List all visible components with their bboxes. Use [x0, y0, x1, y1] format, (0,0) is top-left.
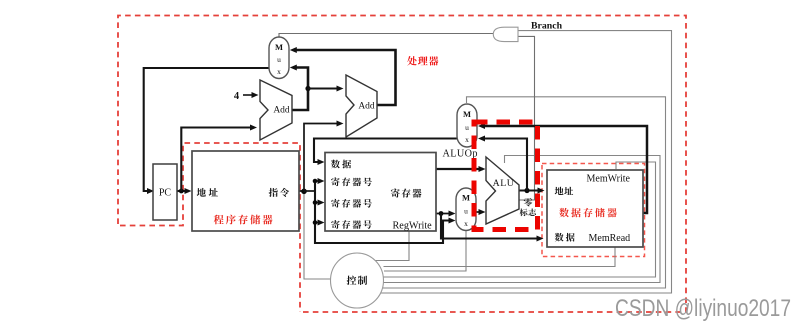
wire mux M2 output to register write data — [314, 139, 457, 166]
register write data label — [331, 160, 351, 169]
svg-text:u: u — [465, 123, 469, 132]
program memory address label — [197, 188, 218, 197]
wire MemWrite control loop (control to data memory) — [384, 162, 656, 277]
wire RegWrite control (control to register file) — [375, 231, 409, 261]
wire register read data 2 to mux M3 and data memory — [436, 211, 544, 242]
wire ALUOp control loop (control to ALU) — [384, 156, 661, 283]
PC register — [153, 164, 177, 220]
program memory box — [192, 151, 299, 231]
register file box — [325, 153, 436, 232]
svg-text:4: 4 — [234, 91, 240, 102]
wire register read data 1 to ALU — [436, 166, 486, 172]
constant 4 label — [234, 91, 240, 102]
program memory instruction label — [269, 188, 289, 197]
wire ALUSrc control (control to mux M3) — [384, 231, 466, 271]
svg-text:Add: Add — [358, 102, 375, 112]
svg-text:CSDN @liyinuo2017: CSDN @liyinuo2017 — [615, 295, 791, 322]
svg-text:PC: PC — [159, 188, 172, 199]
wire instruction to adder A2 (branch offset) — [304, 121, 344, 192]
data memory data label — [555, 233, 575, 242]
ALU U1 — [486, 157, 519, 224]
ALUOp label — [443, 148, 478, 159]
RegWrite label — [393, 221, 433, 232]
wire instruction junction — [299, 189, 307, 195]
wire instruction to register numbers — [304, 178, 456, 243]
register number label 3 — [331, 220, 372, 229]
adder A2 (branch target) — [346, 75, 377, 137]
mux M2 (mem to reg) — [457, 104, 477, 147]
processor boundary (red dashed) top/right/bottom — [118, 16, 686, 313]
svg-text:Branch: Branch — [531, 20, 563, 31]
wire Zero flag (ALU to AND gate) — [518, 36, 535, 200]
zero flag label — [520, 198, 536, 216]
svg-text:u: u — [464, 207, 468, 216]
data memory title (red) — [559, 208, 617, 217]
mux M3 (ALU source) — [456, 188, 476, 231]
program memory title (red) — [214, 215, 273, 225]
CSDN watermark — [615, 295, 791, 322]
data memory highlight (thin red dashed) — [542, 164, 645, 257]
program memory highlight (red dashed) — [120, 143, 300, 312]
wire constant 4 to adder A1 — [243, 92, 259, 98]
svg-text:x: x — [465, 135, 469, 144]
svg-text:u: u — [277, 55, 281, 64]
svg-text:MemWrite: MemWrite — [587, 174, 631, 185]
wire instruction to control unit — [304, 193, 332, 279]
wire Branch control loop (control to AND gate) — [380, 31, 672, 293]
svg-text:M: M — [463, 109, 471, 119]
AND gate (branch taken) — [493, 27, 518, 41]
register number label 1 — [331, 177, 372, 186]
svg-text:M: M — [275, 42, 283, 52]
wire data memory read data to mux M2 — [478, 123, 647, 213]
wire mux M3 output to ALU — [476, 209, 486, 215]
svg-text:ALU: ALU — [493, 178, 515, 189]
svg-text:Add: Add — [273, 106, 290, 116]
register number label 2 — [331, 199, 372, 208]
svg-text:ALUOp: ALUOp — [443, 148, 478, 159]
wire PCSrc (AND gate output to mux M1 select) — [279, 34, 494, 39]
MemRead label — [589, 233, 631, 244]
wire adder A2 output to mux M1 — [290, 47, 396, 105]
adder A1 (PC+4) — [260, 80, 292, 140]
wire PC output to program memory address — [177, 188, 192, 194]
control unit ellipse — [331, 253, 384, 308]
wire MemtoReg control loop (control to mux M2) — [382, 97, 666, 288]
wire ALU result to data memory address and mux M2 — [478, 136, 545, 194]
svg-text:MemRead: MemRead — [589, 233, 631, 244]
wire adder A1 output to mux M1 — [290, 65, 311, 111]
wire PC to adder A1 — [181, 125, 257, 192]
ALU highlight (thick red dashed) — [474, 122, 538, 230]
wire mux M1 output to PC — [144, 68, 269, 194]
register file title — [391, 189, 422, 198]
data memory address label — [555, 187, 574, 195]
data memory box — [547, 170, 643, 247]
mux M1 (PC source) — [269, 37, 289, 79]
wire adder A1 junction to adder A2 — [308, 86, 344, 92]
svg-text:x: x — [464, 219, 468, 228]
svg-text:M: M — [462, 193, 470, 203]
MemWrite label — [587, 174, 631, 185]
processor label (red) — [407, 56, 438, 65]
svg-text:RegWrite: RegWrite — [393, 221, 433, 232]
Branch label — [531, 20, 563, 31]
wire MemRead control (control to data memory bottom) — [384, 247, 616, 267]
svg-text:x: x — [277, 67, 281, 76]
